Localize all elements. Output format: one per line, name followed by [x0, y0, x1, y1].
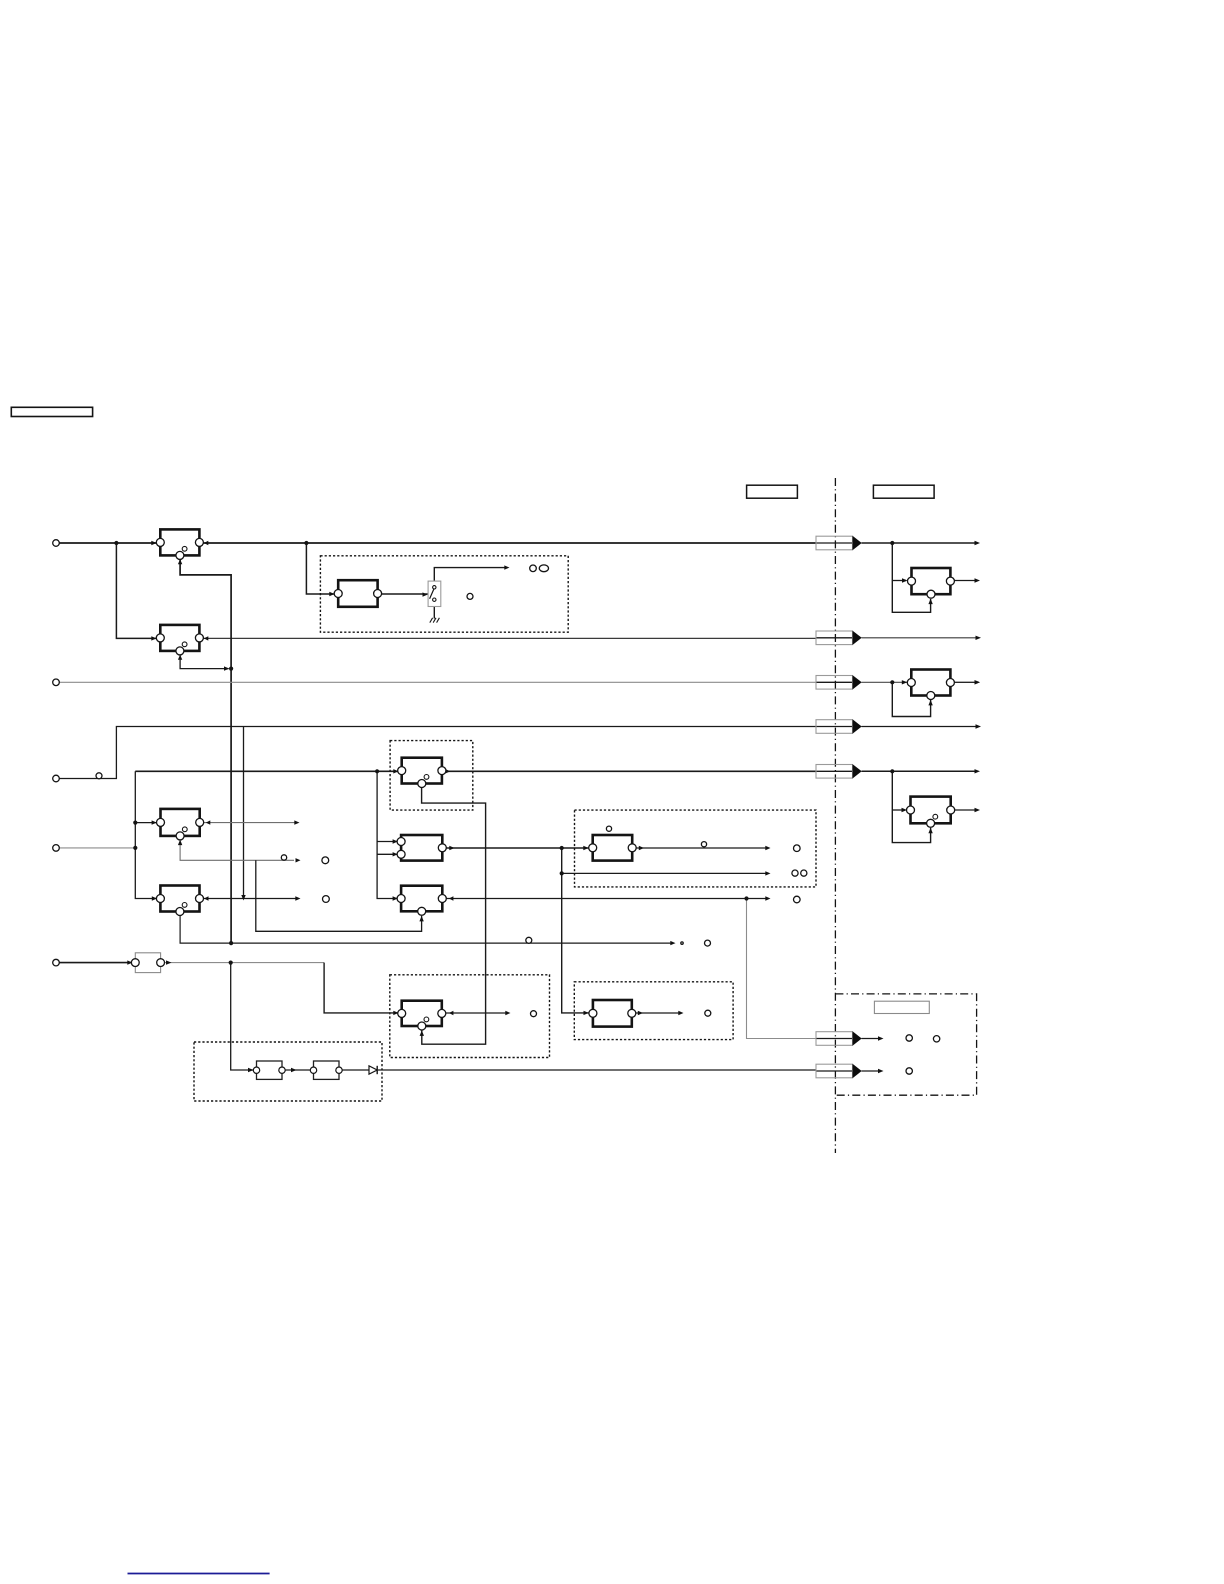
dashed box: mid-right stage [575, 810, 817, 887]
arrowhead end of lower amp output [505, 1011, 510, 1015]
arrowhead into lower-right stage left pin [584, 1011, 589, 1015]
wire: input 6 lead [56, 962, 133, 964]
amp block in lower dashed box [398, 1001, 446, 1030]
arrowhead into lower amp bottom pin [420, 1030, 424, 1036]
node circle above U6 [606, 826, 611, 831]
level block (thin bordered) [131, 953, 164, 973]
node ellipse after switch arrow [539, 565, 548, 572]
wire: U2 bottom pin to main vertical [180, 651, 228, 669]
wire: row 2 from U2 output to connector [199, 637, 816, 639]
wire: branch x=256 down to U5 bottom [256, 860, 422, 931]
wire: U7 output stub [200, 898, 298, 900]
arrowhead into U6 left pin [583, 846, 588, 850]
junction: row3 right feed [890, 680, 894, 684]
wire: diode to connector row 7 [378, 1069, 816, 1071]
wire: U1 bottom pin to main vertical [180, 555, 231, 943]
wire: stub to U4 upper-left pin [377, 841, 398, 843]
junction: U4 output drop [560, 846, 564, 850]
input terminal 6 [53, 959, 60, 966]
wire: stub into U3 left pin [135, 822, 157, 824]
wire: drop x=746 to connector row 6 [747, 899, 817, 1039]
junction: input1/riser [114, 541, 118, 545]
arrowhead at U1 right pin [204, 541, 209, 545]
node circle on input-4 lead [96, 773, 102, 779]
arrowhead end of lower-right stage output [678, 1011, 683, 1015]
arrowhead into switch-box amp left pin [329, 592, 334, 596]
ground symbol [430, 618, 440, 623]
arrowhead x=243 drop end [241, 895, 245, 901]
wire: row 5 after connector [862, 770, 978, 772]
arrowhead row 6 end [878, 1036, 884, 1040]
wire: input 5 lead [56, 847, 135, 849]
arrowhead end of U5 output [765, 896, 770, 900]
connector pin row 1 [816, 536, 862, 550]
wire: drop x=324 into lower amp [324, 963, 398, 1013]
junction: row5 right feed [890, 769, 894, 773]
junction: U5 output drop [744, 896, 748, 900]
wire: row 3 after connector [862, 681, 978, 683]
input terminal 1 [53, 540, 60, 547]
arrowhead into U3 bottom pin [178, 840, 182, 846]
wire: left riser x=135 (input 5 net) [135, 771, 158, 898]
node circle end of U5 output [794, 896, 801, 903]
arrowhead into U4 upper-left pin [393, 839, 398, 843]
arrowhead row 2 end [976, 636, 982, 640]
wire: row 4 after connector [862, 726, 979, 728]
wire: switch lower contact to ground [433, 600, 435, 619]
arrowhead row 1 end [975, 541, 981, 545]
arrowhead row 4 end [976, 724, 982, 728]
dashed box: delay chain [194, 1042, 382, 1101]
arrowhead into U1 bottom pin [178, 559, 182, 564]
connector pin row 5 [816, 764, 862, 778]
junction: row1 right feed [890, 541, 894, 545]
connector board node circle 3 [906, 1068, 912, 1074]
node circle end of U3 bottom net [322, 857, 329, 864]
junction: input5 joins riser [133, 846, 137, 850]
connector pin row 2 [816, 631, 862, 645]
arrowhead into U4 lower-left pin [393, 852, 398, 856]
arrowhead end of y=943 net [670, 941, 675, 945]
wire: x=243 drop from row 4 [243, 727, 245, 896]
arrowhead end of U7 output stub [295, 896, 300, 900]
wire: row 5 bus [135, 770, 816, 772]
wire: U7 bottom net (y=943) [180, 912, 672, 944]
arrowhead at U3 right pin [206, 820, 211, 824]
tiny node on y=943 net end [681, 942, 683, 944]
node circle end of U6 output [794, 845, 801, 852]
IC block U11 (right row 3) [907, 670, 954, 700]
dashed box: lower amp stage [390, 975, 550, 1058]
arrowhead into U12 left pin [902, 808, 908, 812]
dash-dot enclosure (connector board) [835, 994, 976, 1095]
wire: feed loop around U10 (row1) [892, 543, 930, 612]
arrowhead into U1 left pin [151, 541, 156, 545]
amp block inside mute box [334, 580, 381, 607]
wire: U6 output stub [632, 847, 767, 849]
wire: switch-box amp output to switch [378, 593, 428, 595]
arrowhead at lower-right stage output [638, 1011, 643, 1015]
IC block U4 (two inputs) [397, 835, 446, 861]
wire: row 2 after connector [862, 637, 979, 639]
wire: riser x=377 feeding U4/U5 [377, 771, 398, 898]
junction: y=873 branch [560, 871, 564, 875]
IC block U12 (right row 5) [907, 797, 955, 828]
wire: feed loop around U12 (row5) [892, 771, 930, 842]
wire: row 7 after connector [862, 1070, 882, 1072]
node circle 2 end of y=873 stub [801, 870, 807, 876]
arrowhead into delay block 1 [248, 1068, 254, 1072]
IC block U10 (right row 1) [908, 568, 955, 598]
wire: input 1 bus (row 1) [56, 542, 816, 544]
arrowhead into U5 bottom pin [419, 916, 423, 922]
wire: U12 output [951, 809, 977, 811]
wire: U11 output [950, 681, 977, 683]
IC block in lower-right dashed box [589, 1000, 636, 1027]
wire: level block output [161, 962, 325, 964]
arrowhead at U2 right pin [204, 636, 209, 640]
arrowhead U10 output end [975, 578, 981, 582]
wire: lower-right stage output stub [632, 1012, 679, 1014]
wire: stub into U12 left pin [892, 809, 905, 811]
arrowhead into U2 bottom pin [178, 655, 182, 660]
arrowhead at row5-amp right pin [445, 769, 450, 773]
dashed box: mute/switch circuit [320, 556, 568, 632]
wire: branch to U2 (riser x=116) [116, 543, 159, 638]
node circle end of y=943 net [705, 940, 711, 946]
wire: row 6 after connector [862, 1038, 882, 1040]
IC block U6 (mid-right) [589, 835, 637, 861]
connector pin row 4 [816, 719, 862, 733]
junction: control riser on level net [229, 961, 233, 965]
arrowhead at U4 right pin [449, 846, 454, 850]
IC block U3 [157, 809, 204, 840]
input terminal 3 [53, 679, 60, 686]
arrowhead at switch-box amp output [423, 592, 428, 596]
wire: riser into switch-box amp [306, 543, 336, 594]
board boundary dash-dot line [834, 478, 836, 1153]
IC block U2 (row 2 switch) [156, 625, 203, 655]
arrowhead row 5 end [975, 769, 981, 773]
node circle inside mute box [467, 593, 473, 599]
hyperlink underline (blue) [128, 1573, 270, 1575]
node circle after switch arrow [530, 565, 537, 572]
arrowhead into level block [127, 960, 132, 964]
delay block 2 [310, 1061, 342, 1079]
mute switch SW1 [428, 581, 441, 606]
arrowhead at lower amp right pin [449, 1011, 454, 1015]
arrowhead between delay blocks [291, 1068, 297, 1072]
empty label frame (right of boundary) [873, 485, 934, 498]
wire: row 1 after connector [862, 542, 978, 544]
node circle end of U7 output [323, 896, 330, 903]
arrowhead row 7 end [878, 1069, 884, 1073]
wire: control riser x=231 to delay chain [231, 963, 253, 1070]
arrowhead into U5 left pin [393, 896, 398, 900]
arrowhead into U11 bottom pin [928, 700, 932, 706]
arrowhead into lower amp left pin [393, 1011, 398, 1015]
node circle above U6 output [701, 842, 706, 847]
wire: delay block 2 to diode [339, 1069, 369, 1071]
arrowhead into row5-amp left pin [393, 769, 398, 773]
arrowhead at U6 right pin [639, 846, 644, 850]
arrowhead at U5 right pin [449, 896, 454, 900]
arrowhead at level block output [166, 960, 172, 964]
connector board node circle 1 [906, 1035, 912, 1041]
wire: input 4 to row 4 bus [56, 727, 816, 779]
arrowhead end of U3 output stub [294, 820, 299, 824]
arrowhead into U12 bottom pin [928, 828, 932, 834]
wire: switch common to arrow [434, 568, 506, 588]
arrowhead into U3 left pin [152, 820, 157, 824]
empty label frame (top-left) [11, 407, 92, 416]
arrowhead end of U6 output [765, 846, 770, 850]
wire: drop x=562 to lower-right stage [562, 848, 590, 1013]
empty label frame inside connector board [874, 1001, 929, 1013]
node circle on y=943 net [526, 937, 532, 943]
arrowhead into U10 left pin [902, 578, 908, 582]
node circle in lower-right box [705, 1010, 711, 1016]
arrowhead switch common out [504, 565, 509, 569]
arrowhead end of y=873 stub [765, 871, 770, 875]
IC block U7 (lower-left switch) [156, 886, 203, 916]
junction: U3 stub [133, 821, 137, 825]
node circle 1 end of y=873 stub [792, 870, 798, 876]
junction: riser to mute box [304, 541, 308, 545]
connector pin row 7 [816, 1064, 862, 1078]
wire: U5 output line [441, 898, 767, 900]
arrowhead U11 output end [975, 680, 981, 684]
wire: U-link row5-amp bottom to lower-amp bottom (x=485) [422, 784, 486, 1045]
node circle on U3 bottom net [281, 855, 286, 860]
wire: branch y=873 stub [562, 872, 767, 874]
arrowhead row 3 end [975, 680, 981, 684]
arrowhead into U7 left pin [152, 896, 157, 900]
amp block in row-5 dashed box [398, 758, 446, 788]
dashed box: lower-right stage [574, 982, 733, 1040]
IC block U1 (row 1 switch) [156, 529, 203, 559]
diode in delay output [369, 1066, 377, 1074]
junction: main vertical ends on y=943 [229, 941, 233, 945]
arrowhead at U7 right pin [204, 896, 209, 900]
wire: stub to U4 lower-left pin [377, 853, 398, 855]
node circle end of lower amp output [531, 1011, 537, 1017]
connector pin row 3 [816, 675, 862, 689]
IC block U5 [397, 886, 446, 916]
input terminal 4 [53, 775, 60, 782]
arrowhead into U10 bottom pin [928, 599, 932, 605]
wire: U3 bottom net [180, 836, 294, 860]
connector pin row 6 [816, 1031, 862, 1045]
wire: delay block 1 to delay block 2 [282, 1069, 311, 1071]
wire: U4 output to U6 [442, 847, 590, 849]
arrowhead end of U3 bottom net [296, 858, 301, 862]
wire: input 3 bus (row 3) [56, 681, 816, 683]
arrowhead into U2 left pin [151, 636, 156, 640]
delay block 1 [253, 1061, 285, 1079]
junction: row5 at x=377 [375, 769, 379, 773]
wire: U10 output [950, 580, 977, 582]
input terminal 5 [53, 845, 60, 852]
wire: stub into U10 left pin [892, 580, 906, 582]
arrowhead U2 bottom net into junction [224, 666, 230, 670]
arrowhead into U11 left pin [902, 680, 908, 684]
dashed box: row-5 amp [390, 741, 473, 811]
wire: feed loop around U11 (row3) [892, 682, 930, 716]
empty label frame (left of boundary) [747, 485, 798, 498]
wire: U3 output stub [200, 822, 296, 824]
wire: lower amp output stub [441, 1012, 506, 1014]
connector board node circle 2 [933, 1036, 939, 1042]
junction: U2 bottom to vertical [229, 667, 233, 671]
arrowhead U12 output end [975, 808, 981, 812]
